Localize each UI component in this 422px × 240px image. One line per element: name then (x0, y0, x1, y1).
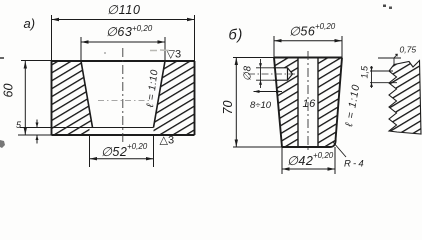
outer body outline a (52, 61, 195, 135)
svg-text:+0,20: +0,20 (127, 142, 148, 151)
svg-text:+0,20: +0,20 (315, 22, 336, 31)
taper right edge (154, 61, 166, 128)
dim 70 vertical (233, 57, 274, 59)
dim O110 line (52, 19, 195, 21)
svg-text:0,75: 0,75 (400, 45, 417, 55)
leader R-4 (333, 142, 346, 157)
scan specks (150, 49, 169, 52)
svg-text:+0,20: +0,20 (132, 24, 153, 33)
svg-text:8÷10: 8÷10 (250, 100, 272, 111)
dim 0,75 (378, 58, 401, 65)
svg-text:1,5: 1,5 (360, 65, 370, 79)
dim O42: extension lines (282, 147, 335, 174)
top edge extension left (21, 60, 52, 62)
left wall hatched section of cone b (274, 58, 298, 148)
svg-text:R-4: R-4 (344, 159, 366, 170)
dim 1,5 (370, 66, 397, 88)
serrated block hatched (389, 61, 421, 135)
dim 8÷10 depth (254, 91, 283, 93)
O8 hole axis (248, 73, 295, 75)
svg-text:+0,20: +0,20 (313, 151, 334, 160)
horizontal center line a (98, 100, 152, 102)
bore lines b (298, 58, 318, 148)
svg-text:70: 70 (221, 101, 235, 115)
dim O110: extension lines (52, 15, 195, 61)
dim O63: extension lines (81, 37, 165, 61)
svg-text:△3: △3 (160, 135, 175, 147)
dim 5 (36, 120, 38, 144)
svg-text:∅42: ∅42 (287, 154, 313, 168)
right wall hatched section of cone b (318, 58, 342, 148)
vertical center line a (122, 48, 124, 144)
outer outline b (274, 58, 342, 148)
svg-text:∅8: ∅8 (243, 65, 254, 81)
dim O8 (256, 68, 273, 80)
dim O63 line (81, 41, 165, 43)
bottom edge extension left (18, 134, 52, 136)
svg-text:б): б) (229, 28, 244, 44)
step line at 5 above bottom (20, 127, 154, 129)
svg-text:∅110: ∅110 (107, 3, 141, 17)
right wall hatched section of bushing a (154, 61, 195, 135)
svg-text:∅63: ∅63 (106, 25, 132, 39)
svg-text:∅52: ∅52 (101, 145, 127, 159)
svg-text:∅56: ∅56 (289, 25, 315, 39)
svg-text:16: 16 (303, 98, 317, 110)
svg-text:a): a) (24, 16, 36, 31)
dim O52: extension lines (90, 135, 154, 167)
O8 hole outline (273, 68, 293, 80)
left wall hatched section of bushing a (52, 61, 93, 135)
dim O56: extension lines (274, 36, 342, 58)
dim O42 line (282, 168, 335, 170)
taper left edge (81, 61, 93, 128)
center line b (307, 51, 309, 153)
dim O52 line (90, 158, 154, 160)
dim O56 line (274, 40, 342, 42)
svg-text:60: 60 (2, 84, 16, 98)
dim 60 vertical (24, 61, 26, 135)
O8 hole white cut (272, 68, 293, 80)
